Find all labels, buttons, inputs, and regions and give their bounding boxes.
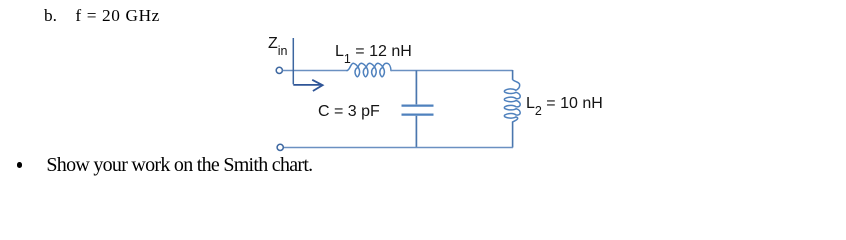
wire right vertical top (corner to L2) bbox=[512, 70, 514, 80]
Zin arrowhead bbox=[312, 80, 322, 91]
wire capacitor bottom stub bbox=[415, 116, 417, 148]
capacitor C bottom plate bbox=[402, 113, 434, 115]
bullet text: Show your work on the Smith chart. bbox=[46, 155, 312, 175]
label Zin bbox=[268, 36, 288, 52]
wire top segment from terminal to L1 bbox=[283, 70, 348, 72]
wire right vertical bottom (L2 to bottom corner) bbox=[512, 122, 514, 148]
inductor L1 coil bbox=[347, 63, 391, 77]
bullet bbox=[17, 162, 23, 168]
capacitor C top plate bbox=[402, 104, 434, 106]
Zin port vertical bar bbox=[292, 38, 294, 84]
label L1 = 12 nH bbox=[335, 44, 412, 60]
wire capacitor top stub bbox=[415, 71, 417, 105]
terminal circle bottom-left bbox=[277, 144, 283, 150]
label L2 = 10 nH bbox=[526, 96, 603, 112]
heading: b. f = 20 GHz bbox=[44, 7, 57, 24]
terminal circle top-left bbox=[276, 67, 282, 73]
wire from L1 to top-right corner bbox=[391, 70, 513, 72]
label C = 3 pF bbox=[318, 104, 380, 120]
Zin arrow shaft bbox=[293, 84, 321, 86]
inductor L2 coil bbox=[504, 79, 520, 122]
wire bottom segment bbox=[284, 147, 513, 149]
